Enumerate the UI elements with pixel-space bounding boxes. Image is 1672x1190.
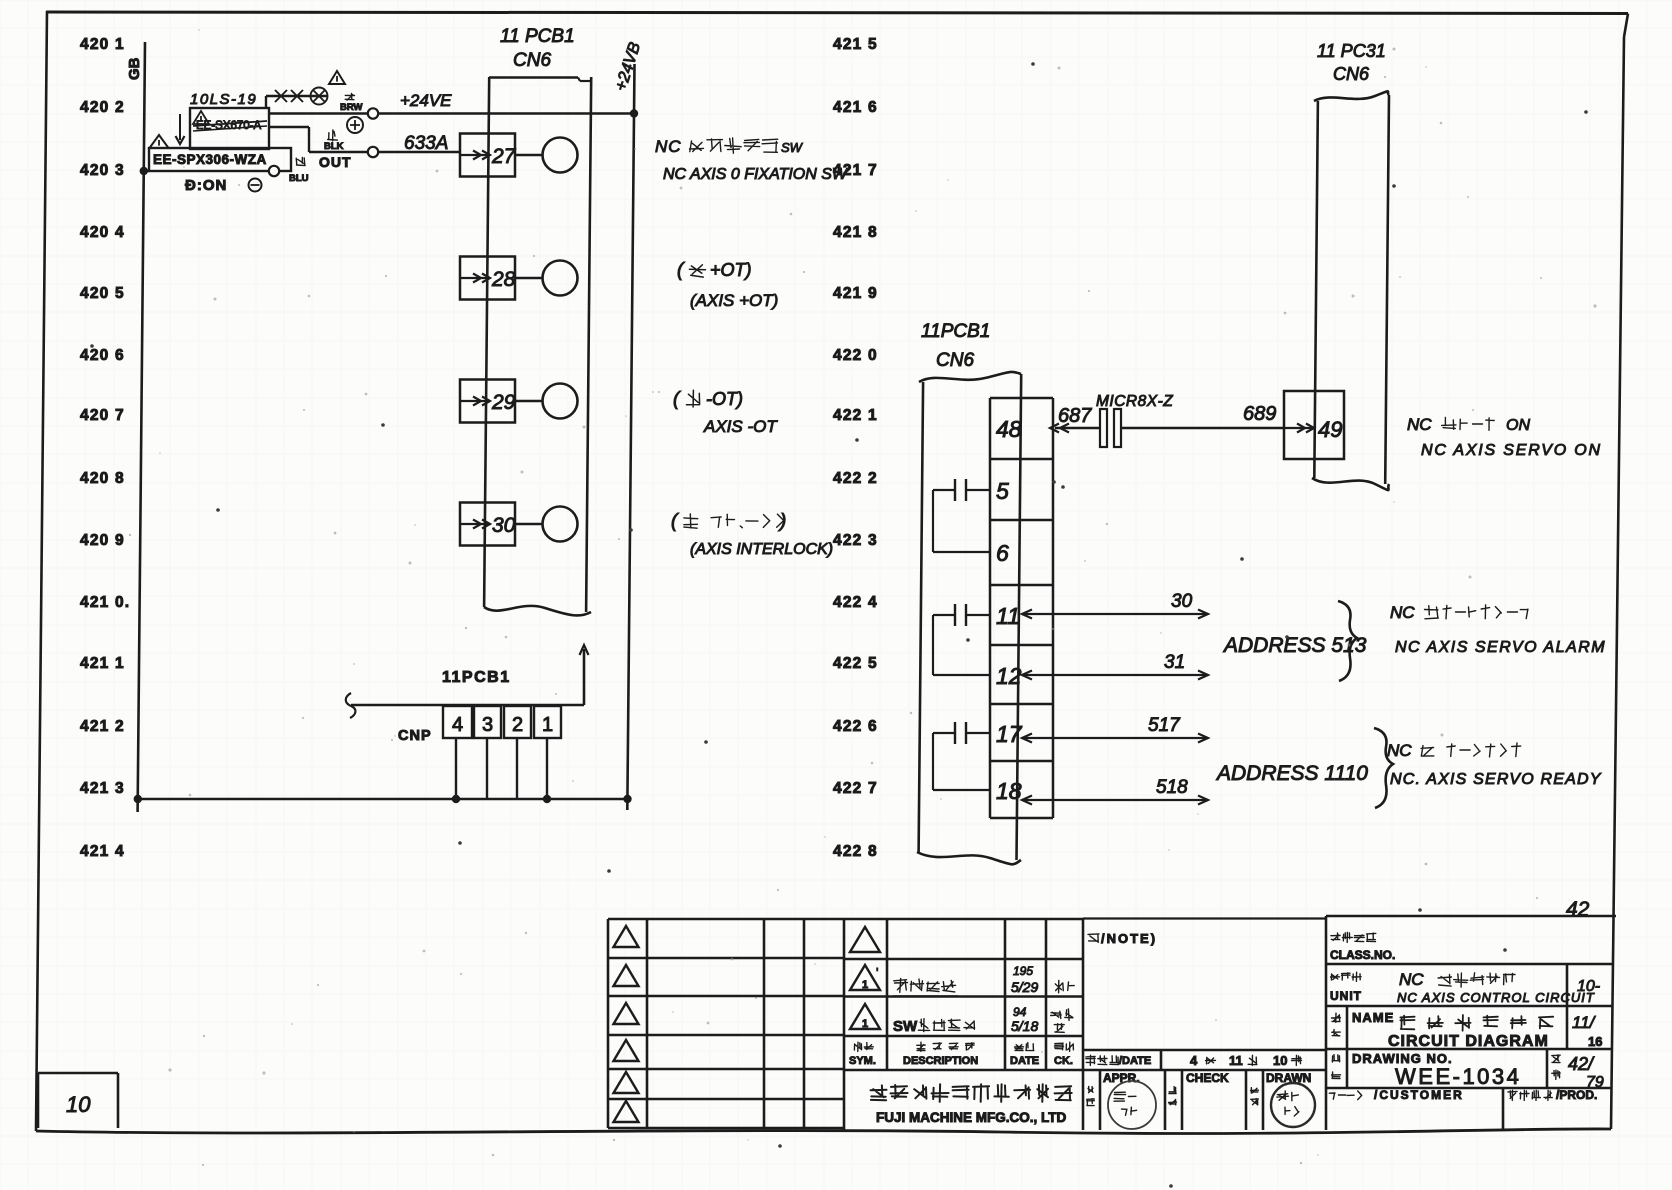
circled X lamp symbol xyxy=(311,88,328,105)
svg-text:49: 49 xyxy=(1318,417,1342,442)
junction dots on bottom bus xyxy=(452,795,460,803)
svg-text:12: 12 xyxy=(996,663,1022,689)
svg-text:422 1: 422 1 xyxy=(833,407,878,424)
svg-text:5/29: 5/29 xyxy=(1011,979,1038,995)
svg-text:11: 11 xyxy=(996,603,1020,629)
svg-text:NC AXIS SERVO ALARM: NC AXIS SERVO ALARM xyxy=(1395,639,1606,656)
terminal circle BLK xyxy=(368,147,378,157)
svg-text:NC: NC xyxy=(655,137,682,156)
svg-text:420 2: 420 2 xyxy=(80,99,125,116)
wire 687 with connector MICR8X-2 xyxy=(1060,424,1069,433)
stamps row xyxy=(1100,1070,1263,1130)
svg-text:MICR8X-Z: MICR8X-Z xyxy=(1096,393,1173,410)
svg-text:422 0: 422 0 xyxy=(833,347,878,364)
svg-text:SYM.: SYM. xyxy=(849,1055,876,1067)
svg-text:CN6: CN6 xyxy=(513,50,551,71)
BLK color label xyxy=(328,130,338,141)
svg-text:WEE-1034: WEE-1034 xyxy=(1395,1064,1521,1089)
CNP pin 1 xyxy=(534,706,561,738)
signal wire 31 xyxy=(1022,674,1208,676)
svg-text:UNIT: UNIT xyxy=(1330,989,1362,1003)
svg-text:NC: NC xyxy=(1390,603,1415,622)
svg-text:2: 2 xyxy=(512,714,523,736)
svg-text:SW: SW xyxy=(781,140,804,155)
svg-text:6: 6 xyxy=(996,540,1009,566)
connector pin 27 with lamp xyxy=(460,134,515,177)
svg-text:ADDRESS 513: ADDRESS 513 xyxy=(1222,634,1367,657)
revision row 1: wire correction xyxy=(894,978,956,992)
warning triangle above xyxy=(329,71,345,84)
svg-text:11PCB1: 11PCB1 xyxy=(442,669,511,686)
svg-text:NAME: NAME xyxy=(1352,1010,1394,1025)
svg-text:CLASS.NO.: CLASS.NO. xyxy=(1330,948,1395,962)
svg-text:DESCRIPTION: DESCRIPTION xyxy=(903,1055,978,1067)
svg-text:CNP: CNP xyxy=(398,728,432,744)
+24VB supply line xyxy=(627,64,634,810)
capacitor coupling symbol xyxy=(966,489,990,491)
NOTE box xyxy=(1083,917,1326,919)
svg-text:421 0.: 421 0. xyxy=(80,594,130,611)
svg-text:NC AXIS 0 FIXATION SW: NC AXIS 0 FIXATION SW xyxy=(663,166,849,183)
svg-text:11 PCB1: 11 PCB1 xyxy=(500,26,575,47)
svg-text:420 6: 420 6 xyxy=(80,347,125,364)
svg-text:420 5: 420 5 xyxy=(80,285,125,302)
pin cell column xyxy=(989,398,992,818)
svg-text:10LS-19: 10LS-19 xyxy=(190,91,257,108)
svg-text:422 7: 422 7 xyxy=(833,780,878,797)
svg-text:28: 28 xyxy=(491,268,516,291)
terminal circle BLU xyxy=(269,166,279,176)
svg-text:/DATE: /DATE xyxy=(1119,1055,1151,1067)
svg-text:689: 689 xyxy=(1243,403,1276,425)
box pin 49 xyxy=(1284,391,1344,459)
svg-text:421 1: 421 1 xyxy=(80,655,125,672)
svg-text:/NOTE): /NOTE) xyxy=(1101,931,1157,946)
svg-text:421 4: 421 4 xyxy=(80,843,125,860)
connector pin 30 with lamp xyxy=(460,503,515,546)
wires CNP to bottom bus xyxy=(455,738,457,799)
CNP pin 4 xyxy=(443,706,472,738)
DATE row xyxy=(1083,916,1326,1130)
connector pin 29 with lamp xyxy=(460,380,515,423)
svg-text:16: 16 xyxy=(1588,1034,1602,1049)
svg-text:+OT): +OT) xyxy=(710,260,752,280)
terminal circle BRW xyxy=(368,108,378,118)
svg-text:1: 1 xyxy=(862,1018,868,1030)
svg-text:420 9: 420 9 xyxy=(80,532,125,549)
svg-text:422 4: 422 4 xyxy=(833,594,878,611)
svg-text:687: 687 xyxy=(1058,405,1092,427)
sheet number box 10 xyxy=(38,1073,118,1128)
svg-text:420 4: 420 4 xyxy=(80,224,125,241)
lamp circle pin 30 xyxy=(543,507,578,542)
svg-text:/CUSTOMER: /CUSTOMER xyxy=(1374,1088,1464,1102)
svg-text:422 8: 422 8 xyxy=(833,843,878,860)
lamp circle pin 28 xyxy=(543,261,578,296)
svg-text:BRW: BRW xyxy=(340,102,363,113)
contact X marks xyxy=(275,90,303,102)
svg-text:420 1: 420 1 xyxy=(80,36,125,53)
node at +24VB xyxy=(630,109,638,117)
svg-text:CIRCUIT DIAGRAM: CIRCUIT DIAGRAM xyxy=(1388,1033,1549,1050)
CLASS NO box xyxy=(1326,916,1616,1130)
wire GB to sensor xyxy=(144,170,149,172)
wire from sensor to +24VE with contacts xyxy=(265,96,267,109)
GB bus vertical line xyxy=(138,42,145,812)
svg-text:420 3: 420 3 xyxy=(80,162,125,179)
svg-text:31: 31 xyxy=(1164,652,1185,673)
svg-text:BLU: BLU xyxy=(289,173,309,184)
svg-text:+24VE: +24VE xyxy=(400,91,452,110)
node: GB junction at 4203 xyxy=(140,167,148,175)
svg-text:11PCB1: 11PCB1 xyxy=(921,321,990,342)
svg-text:422 6: 422 6 xyxy=(833,718,878,735)
stamp circle APPR xyxy=(1108,1081,1156,1129)
connector bars xyxy=(1100,409,1107,447)
UNIT row xyxy=(1331,972,1362,981)
svg-text:17: 17 xyxy=(996,721,1023,747)
svg-text:10: 10 xyxy=(66,1092,91,1117)
svg-text:420 8: 420 8 xyxy=(80,470,125,487)
svg-text:421 8: 421 8 xyxy=(833,224,878,241)
svg-text:DATE: DATE xyxy=(1010,1055,1039,1067)
svg-text:3: 3 xyxy=(482,714,493,736)
stamp circle DRAWN xyxy=(1271,1083,1315,1127)
svg-text:518: 518 xyxy=(1156,777,1188,798)
title block xyxy=(608,919,1083,1128)
sensor EE-SPX306-WZA xyxy=(149,148,291,171)
svg-text:42/: 42/ xyxy=(1568,1054,1595,1074)
svg-text:NC AXIS CONTROL CIRCUIT: NC AXIS CONTROL CIRCUIT xyxy=(1397,990,1595,1005)
lamp circle pin 29 xyxy=(543,384,578,419)
svg-text:4: 4 xyxy=(452,714,463,736)
circled minus xyxy=(249,179,262,192)
svg-text:GB: GB xyxy=(126,57,143,80)
svg-text:10: 10 xyxy=(1273,1053,1287,1068)
svg-text:OUT: OUT xyxy=(319,154,352,170)
svg-text:ADDRESS 1110: ADDRESS 1110 xyxy=(1215,762,1368,785)
svg-text:(AXIS INTERLOCK): (AXIS INTERLOCK) xyxy=(690,541,833,558)
signal wire 517 xyxy=(1022,737,1208,739)
capacitor coupling symbol xyxy=(966,732,990,734)
arrow up to strip xyxy=(583,649,586,705)
warning triangle inside sensor box xyxy=(193,111,209,124)
svg-text:421 6: 421 6 xyxy=(833,99,878,116)
company name Fuji Machine xyxy=(871,1084,1072,1102)
revision triangles second table xyxy=(850,927,880,952)
svg-text:11: 11 xyxy=(1229,1053,1243,1068)
svg-text:29: 29 xyxy=(491,391,516,414)
svg-text:5: 5 xyxy=(996,478,1009,504)
BLU color label xyxy=(296,158,305,166)
svg-text:CK.: CK. xyxy=(1054,1055,1073,1067)
svg-text:421 5: 421 5 xyxy=(833,36,878,53)
signal wire 30 xyxy=(1022,613,1208,615)
svg-text:Đ:ON: Đ:ON xyxy=(185,177,227,194)
svg-text:NC: NC xyxy=(1399,970,1424,989)
svg-text:NC: NC xyxy=(1387,741,1412,760)
svg-text:SW: SW xyxy=(893,1018,918,1035)
svg-text:-OT): -OT) xyxy=(706,389,743,409)
svg-text:10-: 10- xyxy=(1577,978,1600,995)
signal wire 518 xyxy=(1022,799,1208,801)
svg-text:CHECK: CHECK xyxy=(1186,1071,1229,1085)
torn edge bottom of strip xyxy=(484,606,591,616)
svg-text:422 3: 422 3 xyxy=(833,532,878,549)
revision triangles left table xyxy=(614,926,639,947)
svg-text:42: 42 xyxy=(1566,898,1590,921)
svg-text:NC AXIS SERVO ON: NC AXIS SERVO ON xyxy=(1421,442,1602,459)
svg-text:195: 195 xyxy=(1013,964,1033,978)
svg-text:1: 1 xyxy=(542,714,553,736)
svg-text:NC: NC xyxy=(1407,415,1432,434)
svg-text:5/18: 5/18 xyxy=(1011,1018,1038,1034)
svg-text:27: 27 xyxy=(491,145,517,168)
bottom bus wire xyxy=(138,798,628,801)
svg-text:FUJI MACHINE MFG.CO., LTD: FUJI MACHINE MFG.CO., LTD xyxy=(876,1110,1066,1125)
CNP pin 2 xyxy=(504,706,531,738)
NAME row xyxy=(1332,1013,1341,1022)
svg-text:': ' xyxy=(876,965,878,980)
svg-text:421 3: 421 3 xyxy=(80,780,125,797)
warning triangle left of sensor label xyxy=(150,135,169,148)
svg-text:11/: 11/ xyxy=(1572,1013,1597,1032)
connector pin 28 with lamp xyxy=(460,257,515,300)
table header SYM/DESCRIPTION/DATE/CK xyxy=(854,1042,873,1051)
svg-text:EE-SPX306-WZA: EE-SPX306-WZA xyxy=(153,152,267,167)
svg-text:ON: ON xyxy=(1506,417,1530,434)
node: GB junction at 4213 xyxy=(134,795,142,803)
svg-text:/PROD.: /PROD. xyxy=(1556,1088,1597,1102)
svg-text:94: 94 xyxy=(1013,1005,1027,1019)
svg-text:30: 30 xyxy=(492,514,516,537)
svg-text:CN6: CN6 xyxy=(936,350,974,371)
svg-text:421 9: 421 9 xyxy=(833,285,878,302)
svg-text:18: 18 xyxy=(996,778,1022,804)
lamp circle pin 27 xyxy=(543,138,578,173)
svg-text:420 7: 420 7 xyxy=(80,407,125,424)
down arrow annotation xyxy=(179,114,181,140)
svg-text:NC. AXIS SERVO READY: NC. AXIS SERVO READY xyxy=(1390,771,1602,788)
CUSTOMER row xyxy=(1329,1091,1361,1100)
DRAWING NO row xyxy=(1332,1055,1340,1062)
svg-text:422 5: 422 5 xyxy=(833,655,878,672)
svg-text:48: 48 xyxy=(996,416,1022,442)
svg-text:1: 1 xyxy=(862,979,868,991)
break squiggle xyxy=(346,693,356,718)
svg-text:(AXIS +OT): (AXIS +OT) xyxy=(690,291,778,310)
svg-text:422 2: 422 2 xyxy=(833,470,878,487)
svg-text:4: 4 xyxy=(1190,1053,1198,1068)
svg-text:BLK: BLK xyxy=(324,141,344,152)
svg-text:30: 30 xyxy=(1171,591,1193,612)
svg-text:): ) xyxy=(778,511,786,532)
svg-text:AXIS -OT: AXIS -OT xyxy=(703,417,778,436)
svg-text:CN6: CN6 xyxy=(1333,64,1370,84)
svg-text:517: 517 xyxy=(1148,715,1181,736)
BLK wire from sensor OUT xyxy=(269,126,309,128)
capacitor coupling symbol xyxy=(966,614,990,616)
svg-text:11 PC31: 11 PC31 xyxy=(1317,41,1386,61)
svg-text:421 2: 421 2 xyxy=(80,718,125,735)
CNP pin 3 xyxy=(474,706,501,738)
BRW wire color label xyxy=(345,93,354,100)
circled plus xyxy=(347,117,363,133)
